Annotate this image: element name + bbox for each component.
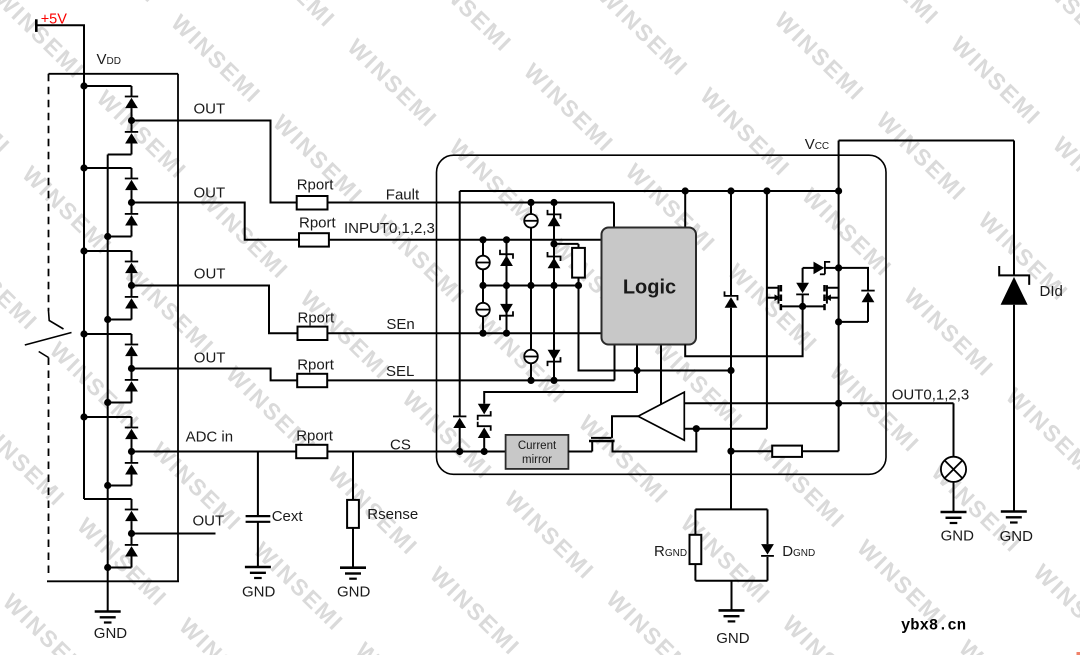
- svg-text:Cext: Cext: [272, 508, 304, 525]
- LED D10: [125, 462, 138, 464]
- node LED pair 4 midpoint: [131, 356, 133, 380]
- svg-text:WINSEMI: WINSEMI: [1048, 131, 1080, 230]
- svg-text:GND: GND: [242, 584, 276, 601]
- ground symbol (lamp): [941, 511, 967, 514]
- wire CM to sense FET source: [568, 451, 592, 453]
- svg-text:WINSEMI: WINSEMI: [0, 588, 98, 655]
- wire OUT3 to Rport3: [132, 286, 298, 334]
- svg-text:WINSEMI: WINSEMI: [166, 9, 266, 108]
- wire OUT4 to Rport4: [132, 369, 298, 381]
- wire Logic top pin risers: [684, 191, 686, 228]
- wire Logic pin to zener pair: [484, 345, 637, 404]
- RGND/DGND parallel box: [695, 508, 767, 510]
- svg-text:mirror: mirror: [522, 454, 552, 466]
- svg-text:CS: CS: [390, 437, 411, 454]
- svg-text:WINSEMI: WINSEMI: [844, 0, 944, 30]
- svg-text:OUT0,1,2,3: OUT0,1,2,3: [892, 386, 970, 403]
- resistor RGND: [690, 535, 702, 564]
- svg-text:WINSEMI: WINSEMI: [770, 7, 870, 106]
- svg-text:DId: DId: [1040, 283, 1063, 300]
- svg-text:DGND: DGND: [782, 543, 815, 560]
- transistor M2: [827, 285, 839, 287]
- LED D1: [131, 86, 133, 97]
- zener diode DId: [999, 266, 1029, 285]
- resistor Rport1: [297, 196, 328, 210]
- svg-text:OUT: OUT: [194, 350, 226, 367]
- svg-text:OUT: OUT: [194, 101, 226, 118]
- svg-text:WINSEMI: WINSEMI: [1029, 559, 1080, 655]
- wire Logic pin to comparator: [660, 345, 662, 405]
- LED pair 6 bottom wire: [108, 567, 132, 569]
- current source I1: [530, 203, 532, 286]
- IC boundary U1: [437, 155, 887, 474]
- diode D9 (gate series, pointing right): [803, 267, 814, 269]
- transistor M1: [766, 191, 768, 429]
- ESD resistor: [554, 243, 579, 245]
- current mirror block: [506, 435, 569, 469]
- LED D7: [131, 334, 133, 345]
- wire clamp bus to logic-pin node: [579, 286, 732, 371]
- svg-text:INPUT0,1,2,3: INPUT0,1,2,3: [344, 220, 435, 237]
- current source I2: [482, 240, 484, 286]
- svg-text:VDD: VDD: [97, 51, 121, 68]
- diode D10 (freewheel): [839, 268, 868, 291]
- current source I4: [530, 286, 532, 381]
- LED D4: [125, 213, 138, 215]
- red corner mark: [1077, 652, 1080, 655]
- svg-text:WINSEMI: WINSEMI: [0, 236, 43, 335]
- node LED pair 6 midpoint: [131, 521, 133, 545]
- zener Z2: [548, 252, 561, 261]
- resistor Rport3: [298, 327, 328, 340]
- zener Z5: [553, 286, 555, 381]
- zener Z3: [506, 240, 508, 286]
- svg-text:OUT: OUT: [194, 185, 226, 202]
- LED pair 3 top wire: [84, 250, 132, 252]
- svg-text:Logic: Logic: [623, 277, 676, 299]
- wire INPUT0,1,2,3 line: [329, 239, 602, 241]
- svg-text:Current: Current: [518, 440, 557, 452]
- svg-text:WINSEMI: WINSEMI: [500, 486, 600, 585]
- svg-text:Rport: Rport: [299, 215, 337, 232]
- LED D2: [125, 131, 138, 133]
- ground symbol (RGND): [719, 609, 745, 612]
- wire OUT6 stub: [132, 533, 216, 535]
- node LED pair 2 midpoint: [131, 190, 133, 214]
- wire Fault line: [328, 202, 615, 204]
- node LED pair 1 midpoint: [131, 108, 133, 132]
- svg-text:WINSEMI: WINSEMI: [695, 82, 795, 181]
- LED D9: [131, 417, 133, 428]
- svg-text:WINSEMI: WINSEMI: [72, 513, 172, 612]
- ground symbol (Cext): [245, 566, 271, 569]
- transistor Q3 sense FET: [589, 440, 615, 443]
- wire OUT to lamp: [953, 403, 955, 456]
- LED D5: [131, 251, 133, 262]
- resistor Rsense: [352, 452, 354, 500]
- svg-text:WINSEMI: WINSEMI: [601, 586, 701, 655]
- wire VCC drop into IC: [838, 141, 840, 452]
- clamp bus: [483, 285, 579, 287]
- svg-text:SEL: SEL: [386, 363, 414, 380]
- wire OUT1 to Rport1: [132, 121, 297, 203]
- logic block: [602, 228, 697, 345]
- wire VCC to DId: [1013, 141, 1015, 276]
- wire VCC: [839, 140, 1014, 142]
- svg-text:OUT: OUT: [193, 513, 225, 530]
- wire to RGND network: [730, 474, 732, 509]
- svg-text:WINSEMI: WINSEMI: [0, 412, 71, 511]
- svg-text:Rport: Rport: [297, 177, 335, 194]
- svg-text:WINSEMI: WINSEMI: [723, 258, 823, 357]
- svg-text:WINSEMI: WINSEMI: [64, 0, 164, 8]
- zener Z7 (up): [478, 422, 491, 431]
- svg-text:WINSEMI: WINSEMI: [0, 61, 16, 160]
- LED D3: [131, 168, 133, 179]
- wire +5V to VDD rail: [36, 25, 84, 86]
- LED D12: [125, 544, 138, 546]
- zener Z6 (down): [478, 404, 491, 415]
- internal VCC bus: [460, 190, 839, 192]
- resistor Rport2: [299, 233, 329, 246]
- svg-text:WINSEMI: WINSEMI: [17, 161, 117, 260]
- wire OUT2 to Rport2: [132, 203, 300, 240]
- svg-text:WINSEMI: WINSEMI: [946, 31, 1046, 130]
- wire Q3 drain to comparator inverting input: [613, 429, 697, 452]
- svg-text:WINSEMI: WINSEMI: [417, 0, 517, 57]
- svg-text:WINSEMI: WINSEMI: [825, 359, 925, 458]
- svg-text:WINSEMI: WINSEMI: [472, 310, 572, 409]
- wire Fault drop to Logic: [613, 203, 615, 228]
- resistor R2 (OUT feedback): [731, 450, 772, 452]
- wire comparator output to Q3 gate: [612, 416, 638, 438]
- node LED pair 3 midpoint: [131, 273, 133, 297]
- svg-text:GND: GND: [94, 625, 128, 642]
- node M2 drain: [835, 318, 842, 325]
- diode D7 (VCC rail to CS): [459, 191, 461, 416]
- svg-text:ADC in: ADC in: [186, 429, 234, 446]
- node Z1/Z2 junction: [550, 240, 557, 247]
- op-amp comparator U2: [638, 392, 684, 440]
- LED pair 1 bottom wire: [108, 154, 132, 156]
- svg-text:Rport: Rport: [298, 309, 336, 326]
- wire M1/M2 source node: [781, 305, 825, 307]
- wire to ground: [731, 581, 733, 611]
- ground symbol (LED module): [95, 610, 121, 613]
- LED pair 4 bottom wire: [108, 402, 132, 404]
- LED D11: [131, 499, 133, 510]
- current source I3: [482, 286, 484, 334]
- VDD rail (left): [83, 25, 85, 499]
- svg-text:WINSEMI: WINSEMI: [593, 0, 693, 81]
- svg-text:VCC: VCC: [805, 136, 829, 153]
- svg-text:WINSEMI: WINSEMI: [351, 637, 451, 655]
- svg-text:WINSEMI: WINSEMI: [778, 610, 878, 655]
- lamp L1: [941, 457, 966, 482]
- resistor Rport5: [296, 445, 327, 458]
- LED D8: [125, 379, 138, 381]
- svg-text:Rport: Rport: [296, 428, 334, 445]
- LED pair 3 bottom wire: [108, 319, 132, 321]
- LED pair 2 top wire: [84, 167, 132, 169]
- LED pair 5 bottom wire: [108, 485, 132, 487]
- svg-text:WINSEMI: WINSEMI: [519, 58, 619, 157]
- diode DGND: [761, 544, 774, 555]
- svg-text:GND: GND: [716, 630, 750, 647]
- wire ADC in to Rport5: [132, 451, 297, 453]
- node LED pair 5 midpoint: [131, 439, 133, 463]
- resistor Rport4: [297, 374, 327, 387]
- svg-text:ybx8.cn: ybx8.cn: [901, 617, 966, 635]
- wire CS line: [327, 451, 505, 453]
- svg-text:WINSEMI: WINSEMI: [1021, 0, 1080, 55]
- svg-text:WINSEMI: WINSEMI: [174, 613, 274, 655]
- wire comparator input 2: [684, 428, 767, 430]
- svg-text:WINSEMI: WINSEMI: [268, 109, 368, 208]
- svg-text:OUT: OUT: [194, 266, 226, 283]
- svg-text:GND: GND: [1000, 528, 1034, 545]
- svg-text:Rsense: Rsense: [367, 506, 418, 523]
- break marks in dashed boundary: [49, 311, 64, 329]
- svg-text:WINSEMI: WINSEMI: [343, 34, 443, 133]
- wire SEn line: [327, 332, 601, 334]
- wire SEL line: [327, 379, 614, 381]
- +5V supply terminal: [35, 19, 38, 32]
- svg-text:Rport: Rport: [297, 356, 335, 373]
- zener Z1: [553, 203, 555, 286]
- svg-text:WINSEMI: WINSEMI: [241, 0, 341, 33]
- LED pair 5 top wire: [84, 416, 132, 418]
- LED return rail: [107, 155, 109, 612]
- zener Z4: [506, 286, 508, 334]
- svg-text:RGND: RGND: [654, 543, 687, 560]
- LED D6: [125, 296, 138, 298]
- wire Logic gate-drive output: [685, 306, 802, 356]
- LED pair 1 top wire: [84, 85, 132, 87]
- svg-text:WINSEMI: WINSEMI: [668, 0, 768, 6]
- svg-text:WINSEMI: WINSEMI: [899, 283, 999, 382]
- svg-text:SEn: SEn: [386, 316, 414, 333]
- zener Z8 (VCC bus to RGND node): [730, 191, 732, 296]
- LED pair 2 bottom wire: [108, 236, 132, 238]
- diode D8 (gate clamp down): [802, 268, 804, 283]
- ground symbol (DId): [1001, 510, 1027, 513]
- LED module boundary box: [49, 73, 179, 75]
- LED pair 4 top wire: [84, 333, 132, 335]
- svg-text:WINSEMI: WINSEMI: [954, 635, 1054, 655]
- svg-text:GND: GND: [337, 584, 371, 601]
- wire SEL riser to Logic: [614, 345, 616, 381]
- capacitor Cext: [257, 452, 259, 517]
- svg-text:GND: GND: [941, 527, 975, 544]
- svg-text:Fault: Fault: [386, 187, 420, 204]
- wire comparator input 1 / OUT line: [684, 402, 953, 404]
- svg-text:WINSEMI: WINSEMI: [797, 183, 897, 282]
- svg-text:WINSEMI: WINSEMI: [425, 561, 525, 655]
- ground symbol (Rsense): [340, 566, 366, 569]
- node INPUT line taps: [479, 236, 486, 243]
